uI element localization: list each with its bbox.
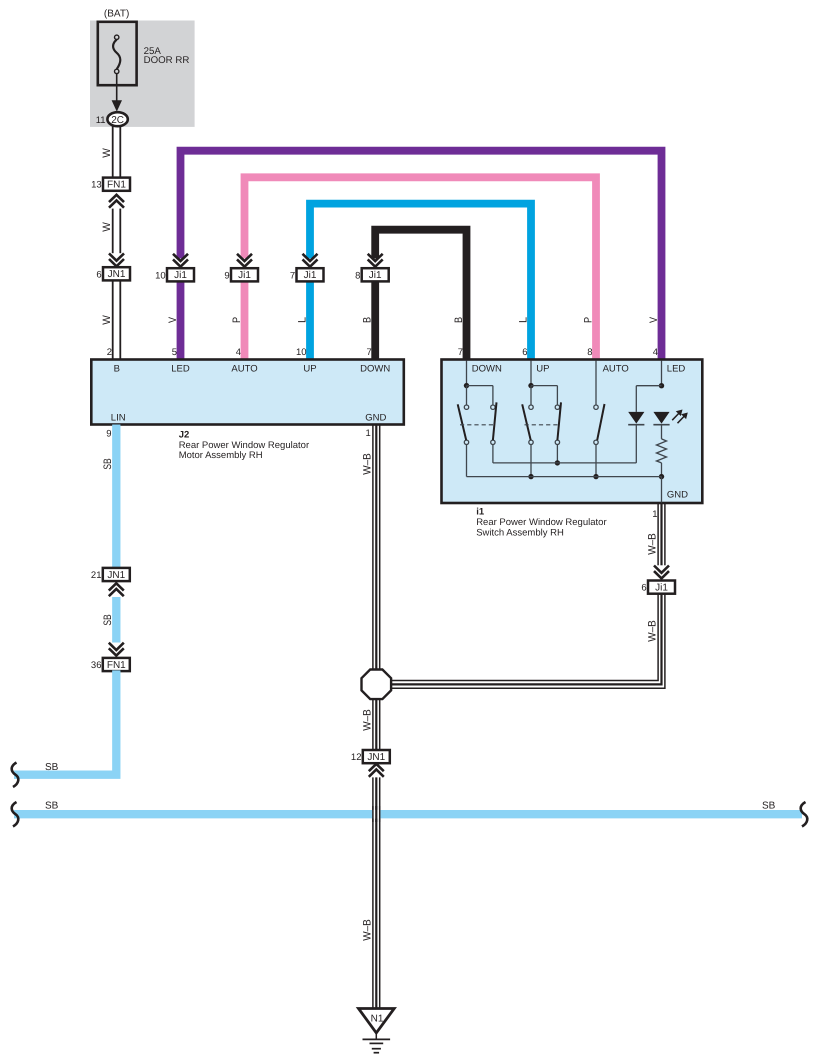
- wire W-B crossing SB bus: [372, 806, 380, 822]
- wire W-B J2 GND to junction: [373, 425, 380, 669]
- connector JN1 pin 21: [91, 568, 130, 581]
- svg-text:B: B: [362, 317, 374, 323]
- label (BAT): [104, 8, 129, 19]
- ground N1: [359, 1009, 395, 1053]
- svg-text:7: 7: [290, 270, 295, 281]
- wire label B: [453, 317, 465, 323]
- svg-text:10: 10: [155, 270, 166, 281]
- connector 2C pin 11: [96, 112, 128, 126]
- wire label W: [101, 147, 113, 157]
- svg-text:6: 6: [522, 347, 527, 358]
- chevron above JN1: [109, 253, 124, 266]
- svg-text:21: 21: [91, 570, 102, 581]
- i1 caption: [476, 506, 606, 538]
- wire below Ji1 connector: [177, 281, 185, 360]
- chevron below FN1: [109, 195, 124, 208]
- wire SB FN1 to page edge: [14, 670, 116, 774]
- LED indicator (i1 internal): [653, 410, 687, 425]
- svg-text:Ji1: Ji1: [238, 270, 251, 281]
- connector Ji1 pin 8: [355, 268, 389, 281]
- wire W-B i1 GND to Ji1: [658, 503, 665, 565]
- junction node (octagon): [362, 670, 392, 700]
- wire label B: [362, 317, 374, 323]
- svg-text:AUTO: AUTO: [603, 363, 629, 374]
- chevron below JN1 12: [369, 764, 384, 777]
- i1 top pin labels: [472, 363, 686, 374]
- svg-text:2: 2: [107, 347, 112, 358]
- svg-text:8: 8: [355, 270, 360, 281]
- diode D (i1 internal): [628, 412, 644, 463]
- svg-text:W–B: W–B: [647, 533, 659, 555]
- i1 lower bus wire: [467, 477, 662, 503]
- component i1 switch assembly box: [442, 360, 703, 504]
- wire label SB: [45, 800, 59, 811]
- wire label W-B: [361, 919, 373, 941]
- svg-text:8: 8: [587, 347, 592, 358]
- J2 pin 9: [106, 429, 111, 440]
- svg-text:SB: SB: [45, 762, 59, 773]
- svg-text:Motor Assembly RH: Motor Assembly RH: [179, 450, 263, 461]
- resistor R (i1 internal): [657, 425, 667, 480]
- wire SB J2 LIN to JN1: [112, 425, 120, 568]
- svg-text:1: 1: [652, 509, 657, 520]
- wire below Ji1 connector: [371, 281, 379, 360]
- svg-text:10: 10: [296, 347, 307, 358]
- connector Ji1 pin 10: [155, 268, 194, 281]
- fuse F 25A DOOR RR: [98, 22, 190, 85]
- svg-text:UP: UP: [303, 364, 316, 375]
- svg-text:SB: SB: [102, 614, 114, 625]
- svg-text:W: W: [101, 221, 113, 231]
- svg-text:JN1: JN1: [107, 570, 125, 581]
- svg-text:7: 7: [367, 347, 372, 358]
- wire label SB: [45, 762, 59, 773]
- wire SB bus across page: [14, 810, 802, 818]
- svg-text:LED: LED: [667, 363, 686, 374]
- svg-text:L: L: [517, 317, 529, 323]
- connector Ji1 pin 6: [641, 581, 675, 594]
- chevron above Ji1 7: [303, 254, 318, 267]
- svg-text:Ji1: Ji1: [369, 270, 382, 281]
- i1 LED feed node: [636, 361, 664, 412]
- svg-text:4: 4: [653, 347, 658, 358]
- connector FN1 pin 13: [91, 178, 130, 191]
- connector JN1 pin 12: [351, 750, 390, 763]
- connector FN1 pin 36: [91, 658, 130, 671]
- svg-text:V: V: [648, 316, 660, 323]
- svg-text:5: 5: [172, 347, 177, 358]
- wire label W: [101, 314, 113, 324]
- svg-text:N1: N1: [371, 1014, 384, 1025]
- break symbol right: [801, 802, 808, 827]
- svg-text:L: L: [296, 317, 308, 323]
- wire W FN1 to JN1: [113, 209, 121, 254]
- svg-text:W–B: W–B: [361, 709, 373, 731]
- connector JN1 pin 6: [96, 267, 130, 280]
- svg-text:UP: UP: [536, 363, 549, 374]
- wire below Ji1 connector: [241, 281, 249, 360]
- svg-text:P: P: [231, 317, 243, 323]
- wire W-B Ji1 to junction: [392, 593, 665, 688]
- wire W 2C to FN1: [113, 126, 121, 177]
- wire below Ji1 connector: [306, 281, 314, 360]
- svg-text:SB: SB: [762, 800, 776, 811]
- J2 caption: [179, 429, 309, 461]
- chevron below JN1 21: [109, 583, 124, 596]
- component J2 motor assembly box: [91, 360, 404, 425]
- wire label V: [648, 316, 660, 323]
- svg-text:13: 13: [91, 180, 102, 191]
- svg-text:JN1: JN1: [367, 752, 385, 763]
- wire W JN1 to J2 pin 2: [113, 280, 121, 360]
- svg-text:SB: SB: [102, 458, 114, 469]
- svg-text:P: P: [582, 317, 594, 323]
- break symbol left: [12, 763, 19, 788]
- J2 pin GND label: [365, 412, 386, 423]
- svg-text:V: V: [167, 316, 179, 323]
- svg-text:DOWN: DOWN: [472, 363, 502, 374]
- svg-text:JN1: JN1: [108, 269, 126, 280]
- svg-text:W–B: W–B: [361, 453, 373, 475]
- svg-text:2C: 2C: [111, 115, 124, 126]
- chevron above FN1 36: [109, 643, 124, 656]
- J2 pin LIN label: [111, 412, 126, 423]
- svg-text:W–B: W–B: [361, 919, 373, 941]
- switch AUTO (momentary): [593, 361, 604, 480]
- pin numbers at box tops: [107, 347, 658, 358]
- chevron above Ji1 8: [368, 254, 383, 267]
- i1 GND label: [667, 489, 688, 500]
- svg-text:(BAT): (BAT): [104, 8, 129, 19]
- svg-text:DOWN: DOWN: [360, 364, 390, 375]
- svg-text:W: W: [101, 147, 113, 157]
- switch UP (double pole): [522, 361, 561, 480]
- wire fuse to 2C with arrow: [112, 74, 122, 112]
- svg-text:FN1: FN1: [107, 660, 126, 671]
- wire SB JN1 to FN1: [112, 597, 120, 643]
- switch DOWN (double pole): [458, 361, 497, 477]
- J2 pin 1: [366, 428, 371, 439]
- svg-text:J2: J2: [179, 429, 190, 440]
- svg-text:W: W: [101, 314, 113, 324]
- chevron above Ji1 10: [173, 254, 188, 267]
- svg-text:6: 6: [641, 583, 646, 594]
- svg-text:B: B: [453, 317, 465, 323]
- svg-text:9: 9: [224, 270, 229, 281]
- svg-text:Switch Assembly RH: Switch Assembly RH: [476, 527, 564, 538]
- wire label P: [231, 317, 243, 323]
- svg-text:4: 4: [236, 347, 241, 358]
- power feed gray block: [90, 21, 195, 127]
- wire W-B junction to JN1: [373, 700, 380, 750]
- wire W-B JN1 to ground: [373, 777, 380, 1008]
- wire label W-B: [647, 620, 659, 642]
- wire label W-B: [361, 453, 373, 475]
- svg-text:SB: SB: [45, 800, 59, 811]
- svg-text:LED: LED: [171, 364, 190, 375]
- i1 upper bus wire: [493, 462, 636, 464]
- wire label W-B: [361, 709, 373, 731]
- svg-text:GND: GND: [667, 489, 688, 500]
- svg-text:Ji1: Ji1: [304, 270, 317, 281]
- wire P pink J2 AUTO to i1 AUTO: [245, 177, 597, 359]
- svg-text:LIN: LIN: [111, 412, 126, 423]
- J2 top pin labels: [114, 364, 391, 375]
- svg-text:12: 12: [351, 752, 362, 763]
- wire label SB: [102, 458, 114, 469]
- connector Ji1 pin 7: [290, 268, 324, 281]
- wire B black J2 DOWN to i1 DOWN: [375, 230, 466, 360]
- i1 pin 1: [652, 509, 657, 520]
- svg-text:DOOR RR: DOOR RR: [144, 55, 190, 66]
- svg-text:9: 9: [106, 429, 111, 440]
- connector Ji1 pin 9: [224, 268, 258, 281]
- svg-text:W–B: W–B: [647, 620, 659, 642]
- wire label SB: [102, 614, 114, 625]
- svg-text:B: B: [114, 364, 120, 375]
- svg-text:Ji1: Ji1: [655, 583, 668, 594]
- chevron above Ji1 6: [654, 566, 669, 579]
- svg-text:11: 11: [96, 115, 106, 126]
- svg-text:AUTO: AUTO: [231, 364, 257, 375]
- svg-text:FN1: FN1: [107, 180, 126, 191]
- svg-text:7: 7: [458, 347, 463, 358]
- svg-text:i1: i1: [476, 506, 485, 517]
- svg-text:Ji1: Ji1: [174, 270, 187, 281]
- wire label L: [517, 317, 529, 323]
- wire label P: [582, 317, 594, 323]
- svg-text:36: 36: [91, 660, 102, 671]
- wire label W-B: [647, 533, 659, 555]
- wire V purple J2 LED to i1 LED: [181, 151, 662, 360]
- wire L blue J2 UP to i1 UP: [310, 204, 531, 360]
- wire label L: [296, 317, 308, 323]
- svg-text:GND: GND: [365, 412, 386, 423]
- chevron above Ji1 9: [237, 254, 252, 267]
- wire label V: [167, 316, 179, 323]
- wire label W: [101, 221, 113, 231]
- break symbol left lower: [12, 802, 19, 827]
- svg-text:6: 6: [96, 269, 101, 280]
- svg-text:1: 1: [366, 428, 371, 439]
- wire label SB: [762, 800, 776, 811]
